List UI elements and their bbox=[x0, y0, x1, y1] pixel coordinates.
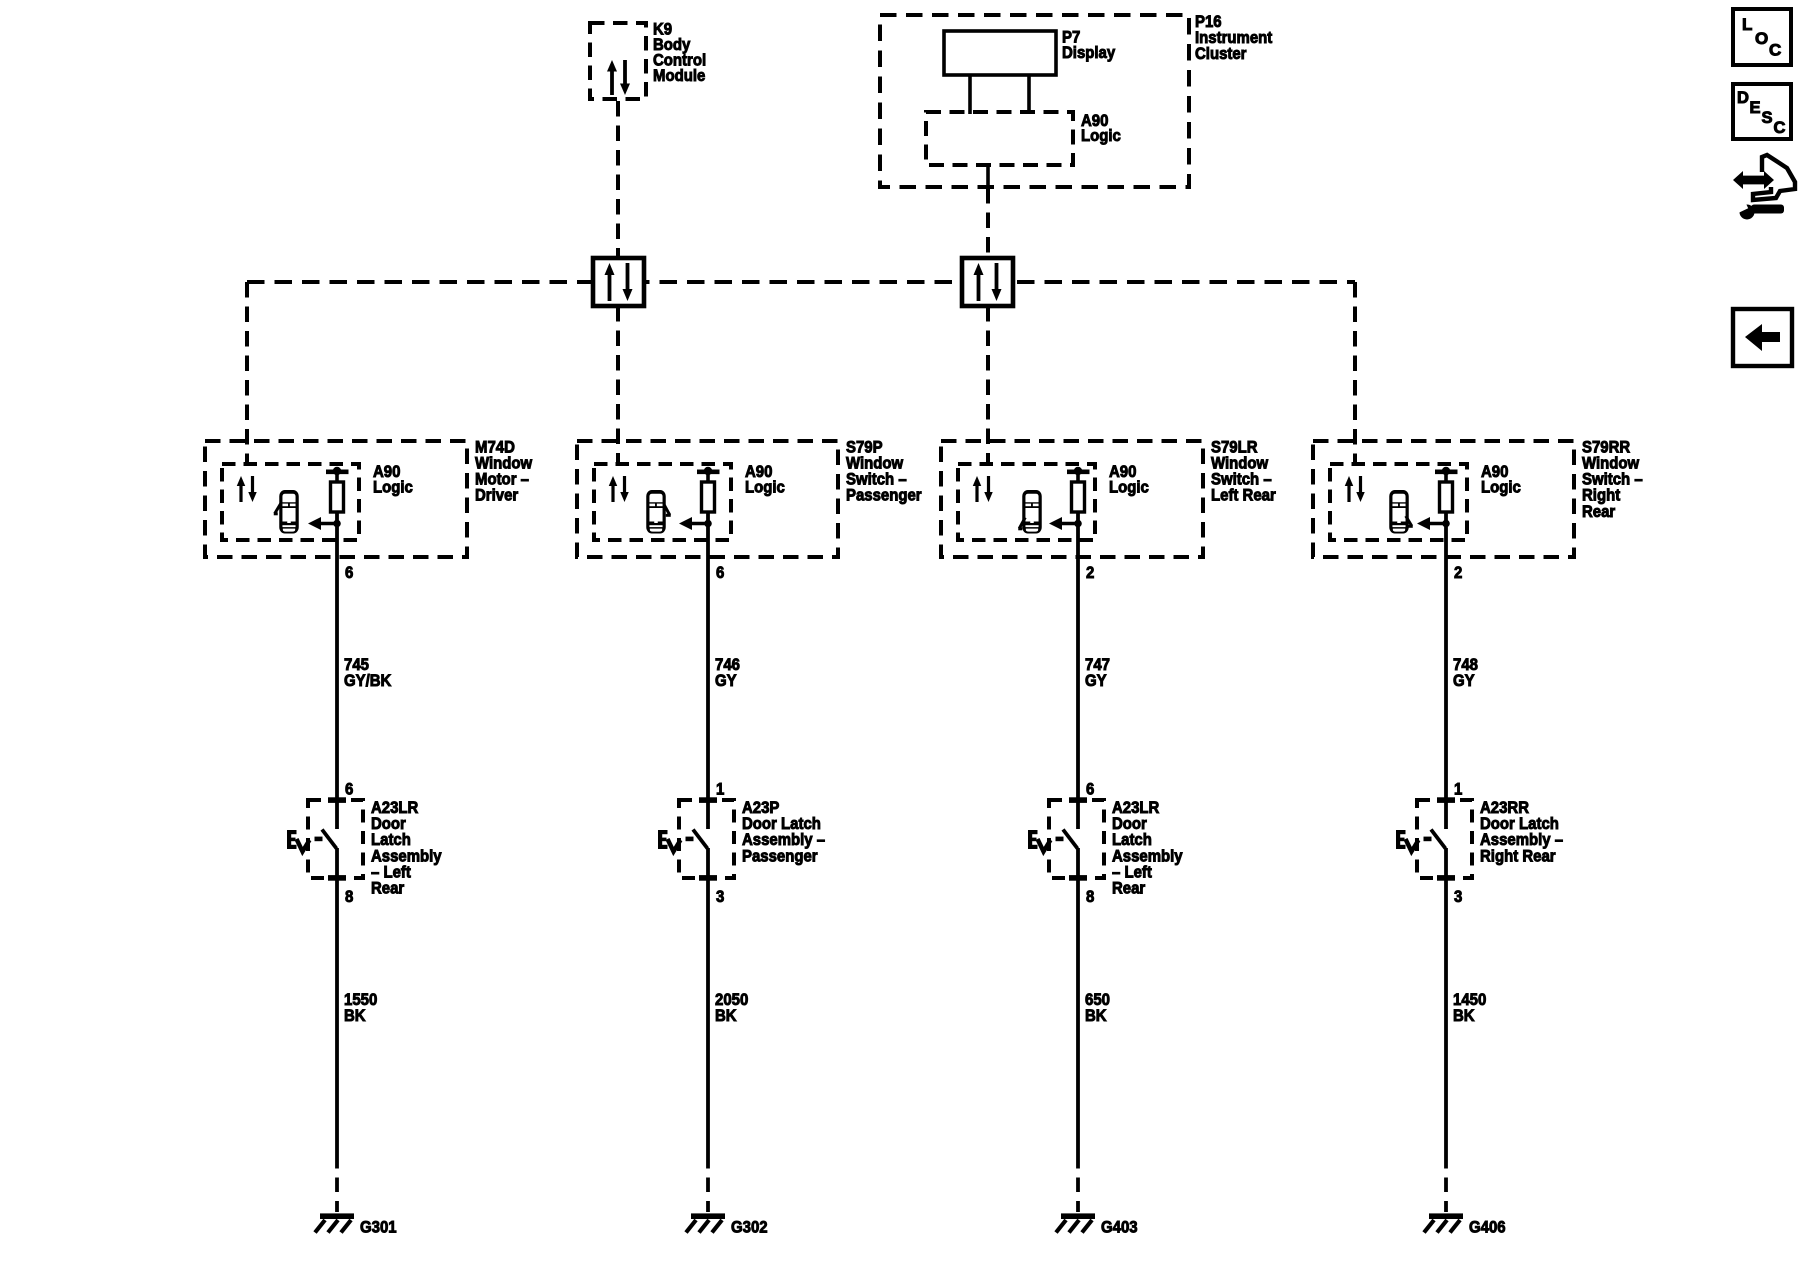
svg-text:S: S bbox=[1762, 109, 1773, 127]
svg-text:Passenger: Passenger bbox=[846, 487, 922, 505]
label G406 bbox=[1469, 1219, 1506, 1237]
wire P7 leg left bbox=[968, 75, 972, 114]
pin 6 label (latch top) bbox=[1086, 781, 1094, 799]
svg-text:Logic: Logic bbox=[1481, 479, 1521, 497]
wire splice 2 to S79LR bbox=[986, 306, 990, 464]
label A90 Logic in M74D bbox=[373, 463, 413, 497]
pin 2 label bbox=[1454, 564, 1462, 582]
label A23LR door latch assembly bbox=[371, 799, 442, 898]
connector/gateway symbol 1 on bus bbox=[593, 258, 644, 306]
latch actuator icon (E with check) A23LR bbox=[1028, 830, 1051, 852]
svg-text:E: E bbox=[1750, 99, 1761, 117]
icon connector navigation (arrows + wrench) bbox=[1733, 155, 1795, 220]
svg-text:Right Rear: Right Rear bbox=[1480, 847, 1556, 865]
label A23P door latch assembly bbox=[742, 799, 825, 865]
up/down arrows in M74D bbox=[237, 476, 257, 502]
wire instrument cluster to splice (serial data) bbox=[986, 188, 990, 258]
label A90 Logic in S79RR bbox=[1481, 463, 1521, 497]
output arrow to car in S79P bbox=[679, 517, 712, 530]
label K9 Body Control Module bbox=[653, 21, 706, 86]
resistor (A90 logic element) in M74D bbox=[331, 472, 344, 512]
label S79P bbox=[846, 439, 922, 505]
svg-text:1: 1 bbox=[1454, 781, 1462, 799]
svg-text:6: 6 bbox=[345, 564, 353, 582]
car icon in M74D bbox=[274, 490, 299, 534]
svg-text:3: 3 bbox=[716, 888, 724, 906]
wire splice 1 to S79P bbox=[616, 306, 620, 464]
svg-text:Logic: Logic bbox=[745, 479, 785, 497]
door latch assembly A23LR box bbox=[308, 797, 363, 880]
svg-text:C: C bbox=[1769, 41, 1781, 60]
switch/module box S79P bbox=[577, 441, 838, 557]
wire label 2050 BK bbox=[715, 991, 748, 1025]
switch blade in A23P bbox=[686, 830, 708, 849]
logic A90 box inside M74D bbox=[222, 464, 359, 540]
wire P7 leg right bbox=[1027, 75, 1031, 114]
svg-text:GY: GY bbox=[1085, 672, 1107, 690]
wire pin 6 of M74D down to latch bbox=[335, 512, 339, 829]
ground G406 bbox=[1424, 1213, 1463, 1232]
car icon in S79LR bbox=[1018, 490, 1042, 534]
icon button back (left arrow) bbox=[1733, 309, 1792, 366]
latch actuator icon (E with check) A23RR bbox=[1396, 830, 1419, 852]
wire 1450 BK latch to ground bbox=[1444, 848, 1448, 1212]
terminal bar and junction dot (M74D) bbox=[326, 467, 349, 475]
svg-text:Rear: Rear bbox=[371, 880, 404, 898]
logic A90 box inside S79P bbox=[594, 464, 731, 540]
terminal bar and junction dot (S79RR) bbox=[1435, 467, 1458, 475]
svg-text:Logic: Logic bbox=[1109, 479, 1149, 497]
svg-text:Cluster: Cluster bbox=[1195, 45, 1247, 63]
svg-text:BK: BK bbox=[715, 1007, 737, 1025]
svg-text:2: 2 bbox=[1086, 564, 1094, 582]
latch actuator icon (E with check) A23LR bbox=[287, 830, 310, 852]
svg-text:Rear: Rear bbox=[1582, 503, 1615, 521]
svg-text:3: 3 bbox=[1454, 888, 1462, 906]
switch blade in A23RR bbox=[1424, 830, 1446, 849]
svg-text:Logic: Logic bbox=[373, 479, 413, 497]
door latch assembly A23P box bbox=[679, 797, 734, 880]
pin 1 label (latch top) bbox=[716, 781, 724, 799]
svg-text:Driver: Driver bbox=[475, 487, 518, 505]
label A90 Logic (cluster) bbox=[1081, 112, 1121, 145]
label M74D bbox=[475, 439, 533, 505]
car icon in S79P bbox=[646, 490, 671, 534]
logic A90 box inside S79RR bbox=[1330, 464, 1467, 540]
terminal bar and junction dot (S79P) bbox=[697, 467, 720, 475]
svg-text:2: 2 bbox=[1454, 564, 1462, 582]
label A90 Logic in S79LR bbox=[1109, 463, 1149, 497]
svg-text:Logic: Logic bbox=[1081, 127, 1121, 145]
label G403 bbox=[1101, 1219, 1138, 1237]
label A90 Logic in S79P bbox=[745, 463, 785, 497]
icon button DESC bbox=[1733, 84, 1791, 139]
pin 3 label (latch bottom) bbox=[716, 888, 724, 906]
wire bus right drop to S79RR bbox=[1353, 282, 1357, 464]
svg-text:L: L bbox=[1742, 15, 1752, 34]
wire label 745 GY/BK bbox=[344, 656, 392, 690]
switch/module box S79LR bbox=[941, 441, 1203, 557]
label P16 Instrument Cluster bbox=[1195, 13, 1273, 63]
svg-text:BK: BK bbox=[1453, 1007, 1475, 1025]
pin 6 label bbox=[716, 564, 724, 582]
svg-text:D: D bbox=[1737, 89, 1749, 107]
svg-text:G301: G301 bbox=[360, 1219, 397, 1237]
terminal bar and junction dot (S79LR) bbox=[1067, 467, 1090, 475]
label G302 bbox=[731, 1219, 768, 1237]
pin 6 label bbox=[345, 564, 353, 582]
connector/gateway symbol 2 on bus bbox=[962, 258, 1013, 306]
svg-text:Display: Display bbox=[1062, 44, 1115, 62]
svg-text:6: 6 bbox=[345, 781, 353, 799]
car icon in S79RR bbox=[1389, 490, 1413, 534]
wire label 1450 BK bbox=[1453, 991, 1486, 1025]
wire 2050 BK latch to ground bbox=[706, 848, 710, 1212]
svg-text:GY/BK: GY/BK bbox=[344, 672, 392, 690]
svg-text:C: C bbox=[1774, 119, 1786, 137]
door latch assembly A23RR box bbox=[1417, 797, 1472, 880]
resistor (A90 logic element) in S79P bbox=[702, 472, 715, 512]
logic A90 of instrument cluster bbox=[926, 112, 1073, 165]
logic A90 box inside S79LR bbox=[958, 464, 1095, 540]
svg-text:6: 6 bbox=[716, 564, 724, 582]
svg-text:BK: BK bbox=[1085, 1007, 1107, 1025]
switch/module box S79RR bbox=[1313, 441, 1574, 557]
up/down arrows in S79RR bbox=[1345, 476, 1365, 502]
svg-text:8: 8 bbox=[345, 888, 353, 906]
wire label 747 GY bbox=[1085, 656, 1110, 690]
resistor (A90 logic element) in S79RR bbox=[1440, 472, 1453, 512]
display P7 bbox=[944, 31, 1056, 75]
svg-text:Left Rear: Left Rear bbox=[1211, 487, 1276, 505]
pin 1 label (latch top) bbox=[1454, 781, 1462, 799]
wire bus left drop to M74D bbox=[245, 282, 249, 464]
ground G301 bbox=[315, 1213, 354, 1232]
output arrow to car in S79LR bbox=[1049, 517, 1082, 530]
icon button LOC bbox=[1733, 9, 1791, 65]
up/down arrows in S79P bbox=[609, 476, 629, 502]
pin 3 label (latch bottom) bbox=[1454, 888, 1462, 906]
switch blade in A23LR bbox=[315, 830, 337, 849]
wire pin 6 of S79P down to latch bbox=[706, 512, 710, 829]
svg-text:G403: G403 bbox=[1101, 1219, 1138, 1237]
wire label 1550 BK bbox=[344, 991, 377, 1025]
output arrow to car in S79RR bbox=[1417, 517, 1450, 530]
wire label 650 BK bbox=[1085, 991, 1110, 1025]
ground G302 bbox=[686, 1213, 725, 1232]
svg-text:G302: G302 bbox=[731, 1219, 768, 1237]
svg-text:BK: BK bbox=[344, 1007, 366, 1025]
pin 8 label (latch bottom) bbox=[345, 888, 353, 906]
svg-text:Rear: Rear bbox=[1112, 880, 1145, 898]
wire 650 BK latch to ground bbox=[1076, 848, 1080, 1212]
wire K9 to splice (serial data) bbox=[616, 101, 620, 258]
door latch assembly A23LR box bbox=[1049, 797, 1104, 880]
svg-text:1: 1 bbox=[716, 781, 724, 799]
label A23RR door latch assembly bbox=[1480, 799, 1563, 865]
bus wire horizontal (serial data) bbox=[247, 280, 1355, 284]
wire label 748 GY bbox=[1453, 656, 1478, 690]
label A23LR door latch assembly bbox=[1112, 799, 1183, 898]
wire 1550 BK latch to ground bbox=[335, 848, 339, 1212]
svg-text:Module: Module bbox=[653, 67, 705, 85]
svg-text:GY: GY bbox=[715, 672, 737, 690]
switch/module box M74D bbox=[205, 441, 467, 557]
label S79LR bbox=[1211, 439, 1276, 505]
svg-text:8: 8 bbox=[1086, 888, 1094, 906]
output arrow to car in M74D bbox=[308, 517, 341, 530]
svg-text:O: O bbox=[1755, 29, 1768, 48]
pin 6 label (latch top) bbox=[345, 781, 353, 799]
wire label 746 GY bbox=[715, 656, 740, 690]
label S79RR bbox=[1582, 439, 1643, 521]
svg-text:G406: G406 bbox=[1469, 1219, 1506, 1237]
svg-text:GY: GY bbox=[1453, 672, 1475, 690]
module P16 Instrument Cluster bbox=[880, 15, 1189, 187]
switch blade in A23LR bbox=[1056, 830, 1078, 849]
resistor (A90 logic element) in S79LR bbox=[1072, 472, 1085, 512]
up/down arrows in S79LR bbox=[973, 476, 993, 502]
svg-text:6: 6 bbox=[1086, 781, 1094, 799]
label P7 Display bbox=[1062, 29, 1115, 62]
latch actuator icon (E with check) A23P bbox=[658, 830, 681, 852]
module K9 Body Control Module bbox=[590, 23, 646, 99]
pin 2 label bbox=[1086, 564, 1094, 582]
wire pin 2 of S79RR down to latch bbox=[1444, 512, 1448, 829]
label G301 bbox=[360, 1219, 397, 1237]
pin 8 label (latch bottom) bbox=[1086, 888, 1094, 906]
ground G403 bbox=[1056, 1213, 1095, 1232]
svg-text:Passenger: Passenger bbox=[742, 847, 818, 865]
wire A90 to cluster edge bbox=[986, 165, 990, 188]
wire pin 2 of S79LR down to latch bbox=[1076, 512, 1080, 829]
